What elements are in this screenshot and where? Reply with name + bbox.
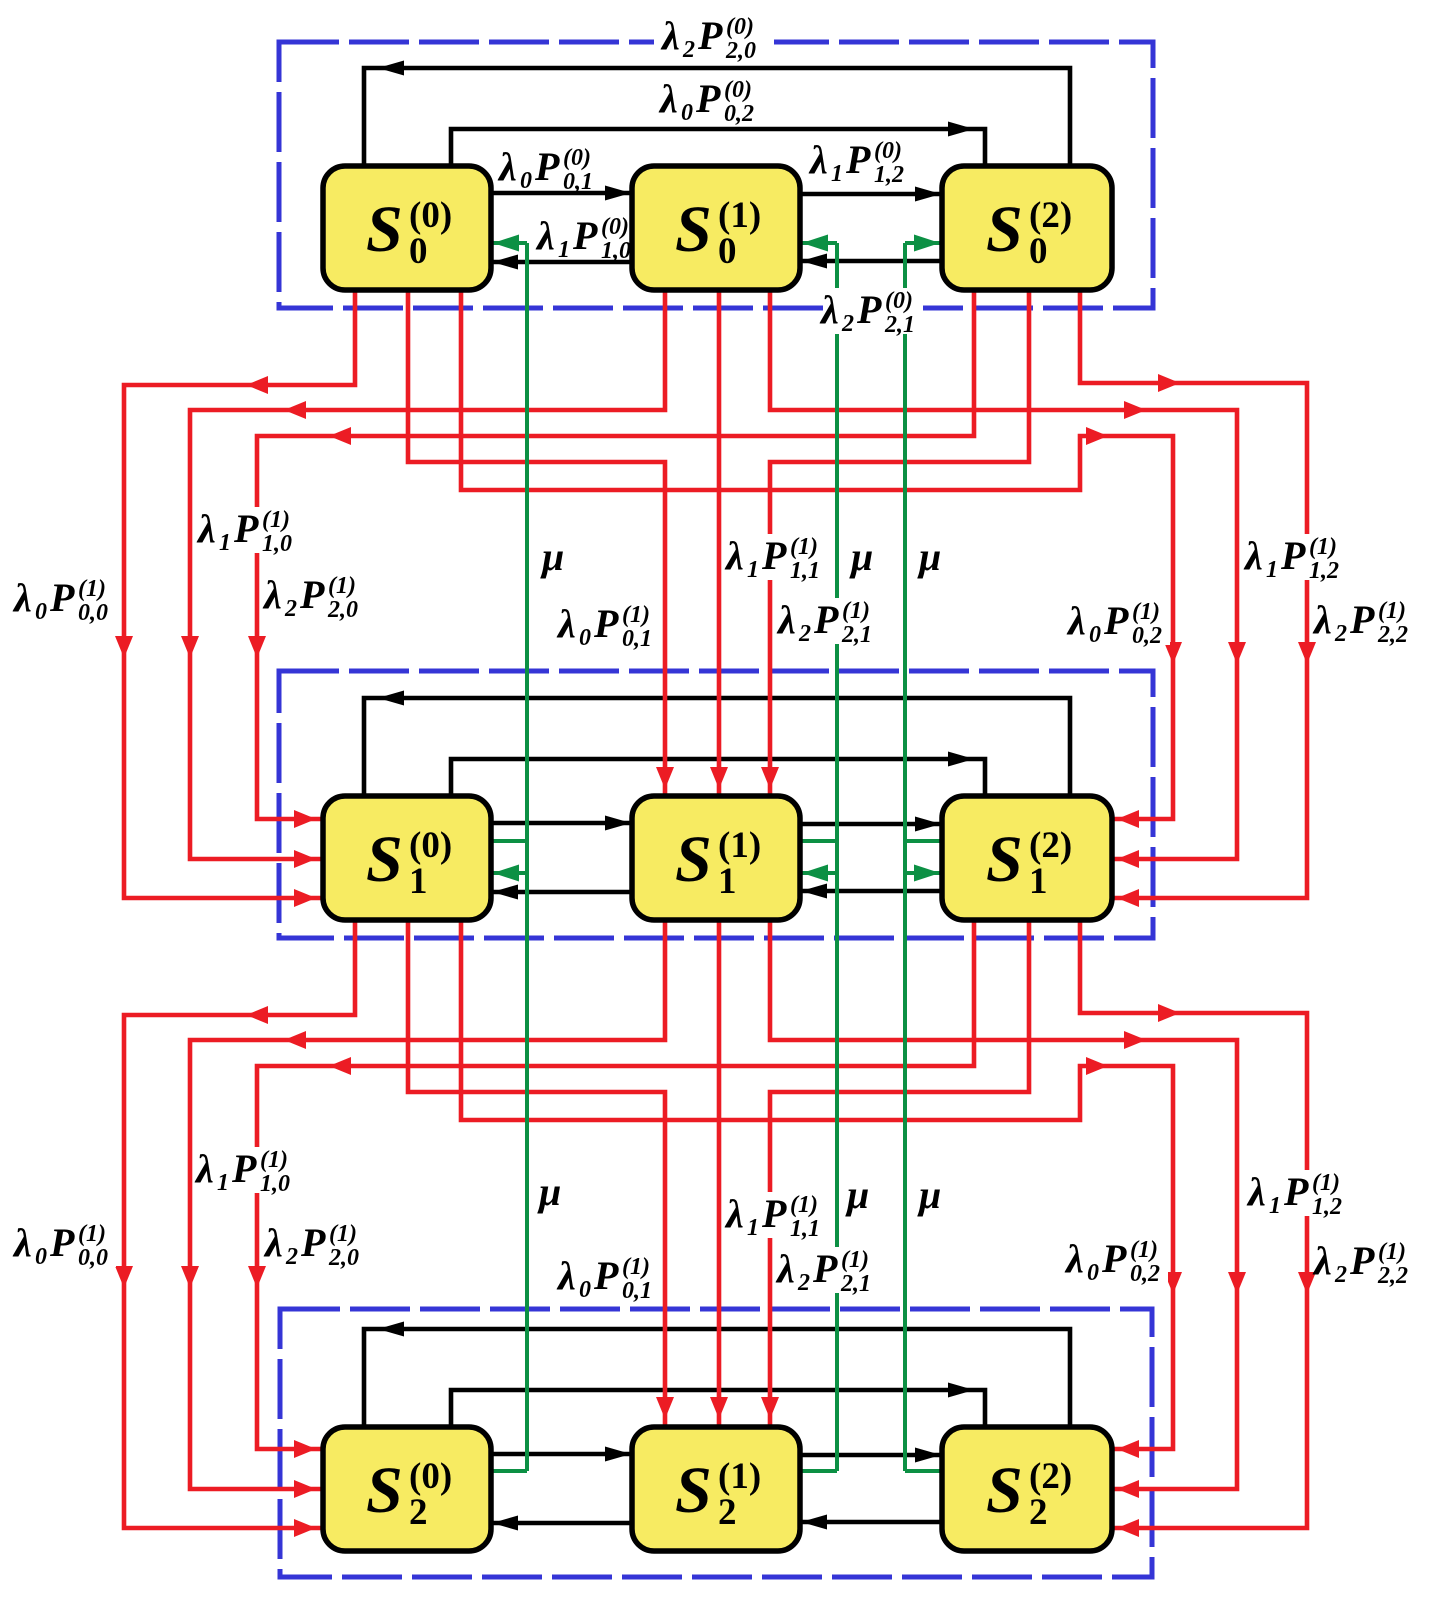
svg-text:0: 0 (409, 231, 428, 272)
svg-text:S: S (366, 193, 403, 266)
svg-text:1: 1 (831, 161, 843, 187)
svg-text:0: 0 (35, 599, 47, 625)
svg-text:0: 0 (579, 625, 591, 651)
svg-text:P: P (49, 1220, 75, 1265)
svg-text:(1): (1) (1309, 534, 1337, 560)
svg-text:S: S (675, 193, 712, 266)
svg-text:1,0: 1,0 (601, 238, 631, 264)
svg-text:λ: λ (263, 1220, 283, 1265)
svg-text:1: 1 (1266, 557, 1278, 583)
svg-text:2,0: 2,0 (725, 38, 756, 64)
svg-text:0: 0 (520, 168, 532, 194)
svg-text:P: P (695, 76, 721, 121)
svg-text:(1): (1) (78, 1221, 106, 1247)
svg-text:(0): (0) (409, 825, 452, 866)
svg-text:λ: λ (660, 13, 680, 58)
svg-text:P: P (593, 601, 619, 646)
svg-text:0: 0 (718, 231, 737, 272)
svg-text:(1): (1) (1378, 598, 1406, 624)
svg-text:2: 2 (1334, 1262, 1347, 1288)
svg-text:P: P (697, 13, 723, 58)
svg-text:S: S (986, 193, 1023, 266)
svg-text:0,2: 0,2 (1130, 1261, 1160, 1287)
svg-text:(1): (1) (718, 1456, 761, 1497)
svg-text:λ: λ (497, 144, 517, 189)
svg-text:1,2: 1,2 (1309, 558, 1339, 584)
svg-text:2: 2 (797, 1270, 810, 1296)
svg-text:(0): (0) (563, 145, 591, 171)
svg-text:P: P (761, 1191, 787, 1236)
svg-text:(1): (1) (262, 507, 290, 533)
svg-text:P: P (233, 506, 259, 551)
svg-text:(1): (1) (329, 1221, 357, 1247)
svg-text:P: P (593, 1253, 619, 1298)
svg-text:1: 1 (219, 530, 231, 556)
svg-text:λ: λ (262, 572, 282, 617)
svg-text:μ: μ (540, 534, 564, 579)
svg-text:1: 1 (747, 557, 759, 583)
svg-text:λ: λ (1243, 533, 1263, 578)
svg-text:(2): (2) (1029, 825, 1072, 866)
svg-text:λ: λ (1312, 597, 1332, 642)
svg-text:1: 1 (1269, 1193, 1281, 1219)
svg-text:(1): (1) (1130, 1237, 1158, 1263)
svg-text:2: 2 (841, 311, 854, 337)
svg-text:(2): (2) (1029, 195, 1072, 236)
svg-text:2: 2 (1334, 621, 1347, 647)
svg-text:0: 0 (1029, 231, 1048, 272)
svg-text:P: P (845, 137, 871, 182)
svg-text:(0): (0) (885, 288, 913, 314)
svg-text:1,0: 1,0 (262, 531, 292, 557)
svg-text:2,2: 2,2 (1377, 622, 1408, 648)
svg-text:(1): (1) (790, 534, 818, 560)
svg-text:λ: λ (819, 287, 839, 332)
svg-text:(1): (1) (622, 602, 650, 628)
svg-text:S: S (986, 1454, 1023, 1527)
svg-text:2: 2 (798, 621, 811, 647)
svg-text:0,0: 0,0 (78, 1245, 108, 1271)
svg-text:(1): (1) (842, 598, 870, 624)
svg-text:1,1: 1,1 (790, 558, 820, 584)
svg-text:λ: λ (1064, 1236, 1084, 1281)
svg-text:P: P (572, 213, 598, 258)
svg-text:(2): (2) (1029, 1456, 1072, 1497)
svg-text:P: P (534, 144, 560, 189)
svg-text:(1): (1) (841, 1247, 869, 1273)
svg-text:2,1: 2,1 (841, 622, 872, 648)
svg-text:0: 0 (681, 100, 693, 126)
svg-text:P: P (300, 1220, 326, 1265)
svg-text:(1): (1) (1378, 1239, 1406, 1265)
svg-text:λ: λ (535, 213, 555, 258)
svg-text:λ: λ (775, 1246, 795, 1291)
svg-text:(1): (1) (622, 1254, 650, 1280)
svg-text:0,1: 0,1 (563, 169, 593, 195)
svg-text:λ: λ (724, 533, 744, 578)
svg-text:2,0: 2,0 (327, 597, 358, 623)
svg-text:P: P (49, 575, 75, 620)
svg-text:1,0: 1,0 (260, 1171, 290, 1197)
svg-text:2,1: 2,1 (840, 1271, 871, 1297)
svg-text:λ: λ (12, 1220, 32, 1265)
svg-text:P: P (231, 1146, 257, 1191)
svg-text:2: 2 (284, 596, 297, 622)
svg-text:(1): (1) (718, 825, 761, 866)
svg-text:P: P (1280, 533, 1306, 578)
svg-text:2,1: 2,1 (884, 312, 915, 338)
svg-text:S: S (366, 823, 403, 896)
svg-text:0: 0 (35, 1244, 47, 1270)
svg-text:μ: μ (917, 534, 941, 579)
svg-text:S: S (675, 1454, 712, 1527)
svg-text:2: 2 (718, 1492, 737, 1533)
svg-text:P: P (299, 572, 325, 617)
svg-text:0: 0 (1087, 1260, 1099, 1286)
svg-text:S: S (675, 823, 712, 896)
svg-text:1,2: 1,2 (874, 162, 904, 188)
svg-text:(1): (1) (1312, 1170, 1340, 1196)
svg-text:0,1: 0,1 (622, 626, 652, 652)
svg-text:P: P (1103, 598, 1129, 643)
svg-text:0,1: 0,1 (622, 1278, 652, 1304)
svg-text:1: 1 (558, 237, 570, 263)
svg-text:0: 0 (579, 1277, 591, 1303)
svg-text:S: S (986, 823, 1023, 896)
svg-text:μ: μ (917, 1172, 941, 1217)
svg-text:(0): (0) (409, 1456, 452, 1497)
svg-text:1,2: 1,2 (1312, 1194, 1342, 1220)
svg-text:2: 2 (285, 1244, 298, 1270)
svg-text:(0): (0) (601, 214, 629, 240)
svg-text:(1): (1) (1132, 599, 1160, 625)
svg-text:0: 0 (1089, 622, 1101, 648)
svg-text:(1): (1) (718, 195, 761, 236)
svg-text:P: P (1283, 1169, 1309, 1214)
svg-text:1: 1 (1029, 861, 1048, 902)
svg-text:P: P (856, 287, 882, 332)
svg-text:2,0: 2,0 (328, 1245, 359, 1271)
svg-text:(1): (1) (790, 1192, 818, 1218)
svg-text:2: 2 (409, 1492, 428, 1533)
svg-text:μ: μ (845, 1172, 869, 1217)
svg-text:λ: λ (12, 575, 32, 620)
svg-text:λ: λ (1312, 1238, 1332, 1283)
svg-text:λ: λ (194, 1146, 214, 1191)
svg-text:2,2: 2,2 (1377, 1263, 1408, 1289)
svg-text:P: P (812, 1246, 838, 1291)
svg-text:P: P (1101, 1236, 1127, 1281)
svg-text:P: P (761, 533, 787, 578)
svg-text:(1): (1) (260, 1147, 288, 1173)
svg-text:0,2: 0,2 (724, 101, 754, 127)
svg-text:2: 2 (1029, 1492, 1048, 1533)
svg-text:(0): (0) (724, 77, 752, 103)
svg-text:S: S (366, 1454, 403, 1527)
svg-text:(0): (0) (409, 195, 452, 236)
svg-text:λ: λ (808, 137, 828, 182)
svg-text:λ: λ (658, 76, 678, 121)
svg-text:(0): (0) (726, 14, 754, 40)
svg-text:1: 1 (747, 1215, 759, 1241)
svg-text:0,0: 0,0 (78, 600, 108, 626)
svg-text:λ: λ (196, 506, 216, 551)
svg-text:μ: μ (537, 1169, 561, 1214)
svg-text:(1): (1) (78, 576, 106, 602)
svg-text:1: 1 (217, 1170, 229, 1196)
svg-text:1: 1 (409, 861, 428, 902)
svg-text:P: P (1349, 597, 1375, 642)
svg-text:λ: λ (1246, 1169, 1266, 1214)
svg-text:λ: λ (1066, 598, 1086, 643)
svg-text:λ: λ (776, 597, 796, 642)
svg-text:1: 1 (718, 861, 737, 902)
svg-text:1,1: 1,1 (790, 1216, 820, 1242)
svg-text:μ: μ (849, 534, 873, 579)
svg-text:(0): (0) (874, 138, 902, 164)
svg-text:λ: λ (556, 1253, 576, 1298)
svg-text:P: P (813, 597, 839, 642)
svg-text:(1): (1) (328, 573, 356, 599)
svg-text:λ: λ (556, 601, 576, 646)
svg-text:λ: λ (724, 1191, 744, 1236)
svg-text:2: 2 (682, 37, 695, 63)
svg-text:P: P (1349, 1238, 1375, 1283)
svg-text:0,2: 0,2 (1132, 623, 1162, 649)
